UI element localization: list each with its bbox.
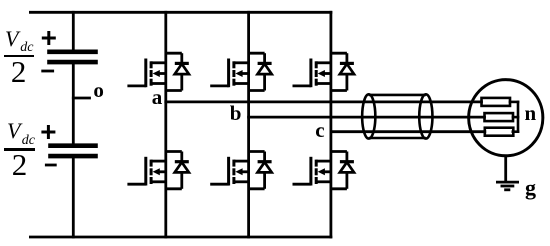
node o label: [93, 80, 104, 101]
wire: positive DC rail (top): [30, 11, 331, 14]
node c label: [315, 120, 324, 141]
capacitor C2 plus sign: [43, 127, 54, 138]
motor winding phase a: [482, 98, 511, 106]
capacitor C1 plus sign: [43, 33, 54, 44]
node g label: [525, 177, 536, 199]
node o stub wire: [73, 97, 89, 100]
ground symbol: [496, 182, 519, 190]
wire: left DC bus middle segment: [72, 65, 75, 144]
motor M body circle: [469, 80, 543, 156]
wire: leg 3 vertical: [329, 12, 332, 237]
capacitor C1 minus sign: [43, 70, 53, 73]
capacitor C2 minus sign: [46, 164, 55, 167]
node b label: [230, 103, 242, 124]
wire: neutral connections to node n: [510, 102, 518, 132]
node n label: [525, 103, 537, 124]
wire: left DC bus upper segment: [72, 12, 75, 49]
value label Vdc/2 (C2): [7, 120, 20, 142]
wire: motor frame to ground: [504, 157, 507, 182]
wire: left DC bus lower segment: [72, 159, 75, 237]
transistor Q2 (bottom, leg a) with body diode D2: [127, 152, 189, 189]
transistor Q5 (top, leg c) with body diode D5: [293, 53, 355, 90]
motor winding phase b: [485, 113, 514, 121]
transistor Q6 (bottom, leg c) with body diode D6: [293, 152, 355, 189]
cable shield cylinder: [362, 94, 432, 138]
transistor Q1 (top, leg a) with body diode D1: [127, 53, 189, 90]
value label Vdc/2 (C1): [5, 28, 18, 50]
wire: phase c line: [331, 130, 485, 133]
transistor Q4 (bottom, leg b) with body diode D4: [210, 152, 272, 189]
wire: phase a line: [166, 101, 482, 104]
capacitor C2 plates: [51, 146, 96, 156]
transistor Q3 (top, leg b) with body diode D3: [210, 53, 272, 90]
wire: leg 1 vertical: [164, 12, 167, 237]
node a label: [152, 87, 163, 108]
motor winding phase c: [485, 128, 514, 136]
wire: leg 2 vertical: [247, 12, 250, 237]
wire: phase b line: [249, 116, 485, 119]
wire: negative DC rail (bottom): [30, 236, 331, 239]
capacitor C1 plates: [50, 52, 96, 62]
